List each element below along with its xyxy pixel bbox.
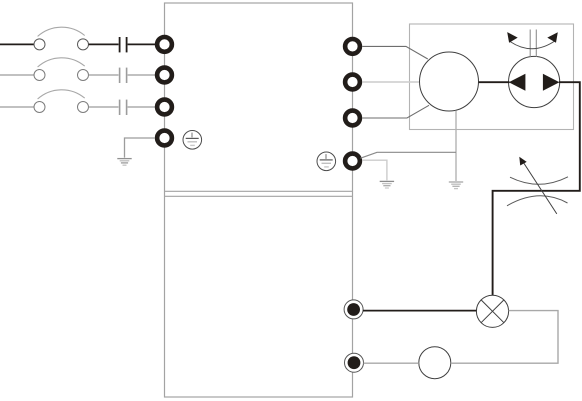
wire terminal PE right to ground 2 [362,160,387,180]
wire meter to terminal B [364,362,419,364]
terminal S (input 2) [157,68,172,83]
breaker Q1 pole2 circle a [34,70,45,81]
wire L2 mid segment [89,74,119,76]
throttle arrowhead [519,157,526,166]
pump left triangle [509,74,526,91]
wire U to motor [362,46,428,59]
ground symbol under motor [449,182,463,189]
PE symbol right (circled earth) [317,152,336,171]
wire motor to pump (thick) [479,81,510,83]
breaker Q1 pole1 arc [38,27,85,36]
terminal relay A (top, filled) [344,300,363,319]
breaker Q1 pole3 circle b [78,102,89,113]
wire terminal PE left to ground [125,138,155,158]
wire V to motor [362,81,419,83]
wire terminal PE right to motor ground line [361,152,457,158]
main enclosure rectangle (VFD body) [165,3,353,397]
divider line lower [165,195,353,197]
wire lamp to meter (gray loop) [451,311,558,364]
lamp H1 [476,295,508,327]
fuse F2 bar2 [126,68,128,83]
terminal relay B (bottom, filled) [345,353,364,372]
ground symbol 2 [380,181,394,188]
terminal T (input 3) [157,100,172,115]
fuse F3 bar2 [126,100,128,115]
wire terminal A to lamp [363,310,477,312]
wire pump to lamp (thick black path) [493,82,580,295]
terminal PE right [345,154,360,169]
fuse F2 bar1 [119,68,121,83]
breaker Q1 pole2 arc [38,58,85,67]
pump right triangle [543,74,560,91]
wire L2 input segment [0,74,34,76]
wire L1 to terminal R [128,43,155,45]
throttle valve upper arc [510,177,568,184]
PE symbol left (circled earth) [183,131,202,150]
meter circle [419,347,451,379]
divider line upper [165,190,353,192]
terminal R (input 1) [157,37,172,52]
ground symbol left [117,159,131,166]
terminal W (output 3) [345,111,360,126]
wire L3 input segment [0,106,34,108]
rotation arrowhead left [507,32,518,43]
pump P1 circle [508,56,559,107]
wire W to motor [362,105,429,118]
breaker Q1 pole3 circle a [34,102,45,113]
motor box [410,24,574,130]
fuse F1 bar1 [119,37,121,52]
breaker Q1 pole1 circle a [34,39,45,50]
wire L2 to terminal S [128,74,155,76]
wire L3 mid segment [89,106,119,108]
throttle arrow line [522,160,557,214]
breaker Q1 pole1 circle b [78,39,89,50]
motor M1 circle [420,52,479,111]
fuse F1 bar2 [126,37,128,52]
breaker Q1 pole3 arc [38,90,85,99]
wire motor frame to ground [455,111,457,181]
terminal PE left [157,131,172,146]
rotation arc [510,41,556,49]
rotation arrowhead right [547,32,558,43]
throttle valve lower arc [507,196,568,206]
terminal V (output 2) [345,75,360,90]
wire L1 mid segment [89,43,119,45]
wire L1 input segment [0,43,34,45]
wire L3 to terminal T [128,106,155,108]
pump shaft lines [529,30,531,57]
terminal U (output 1) [345,39,360,54]
breaker Q1 pole2 circle b [78,70,89,81]
fuse F3 bar1 [119,100,121,115]
